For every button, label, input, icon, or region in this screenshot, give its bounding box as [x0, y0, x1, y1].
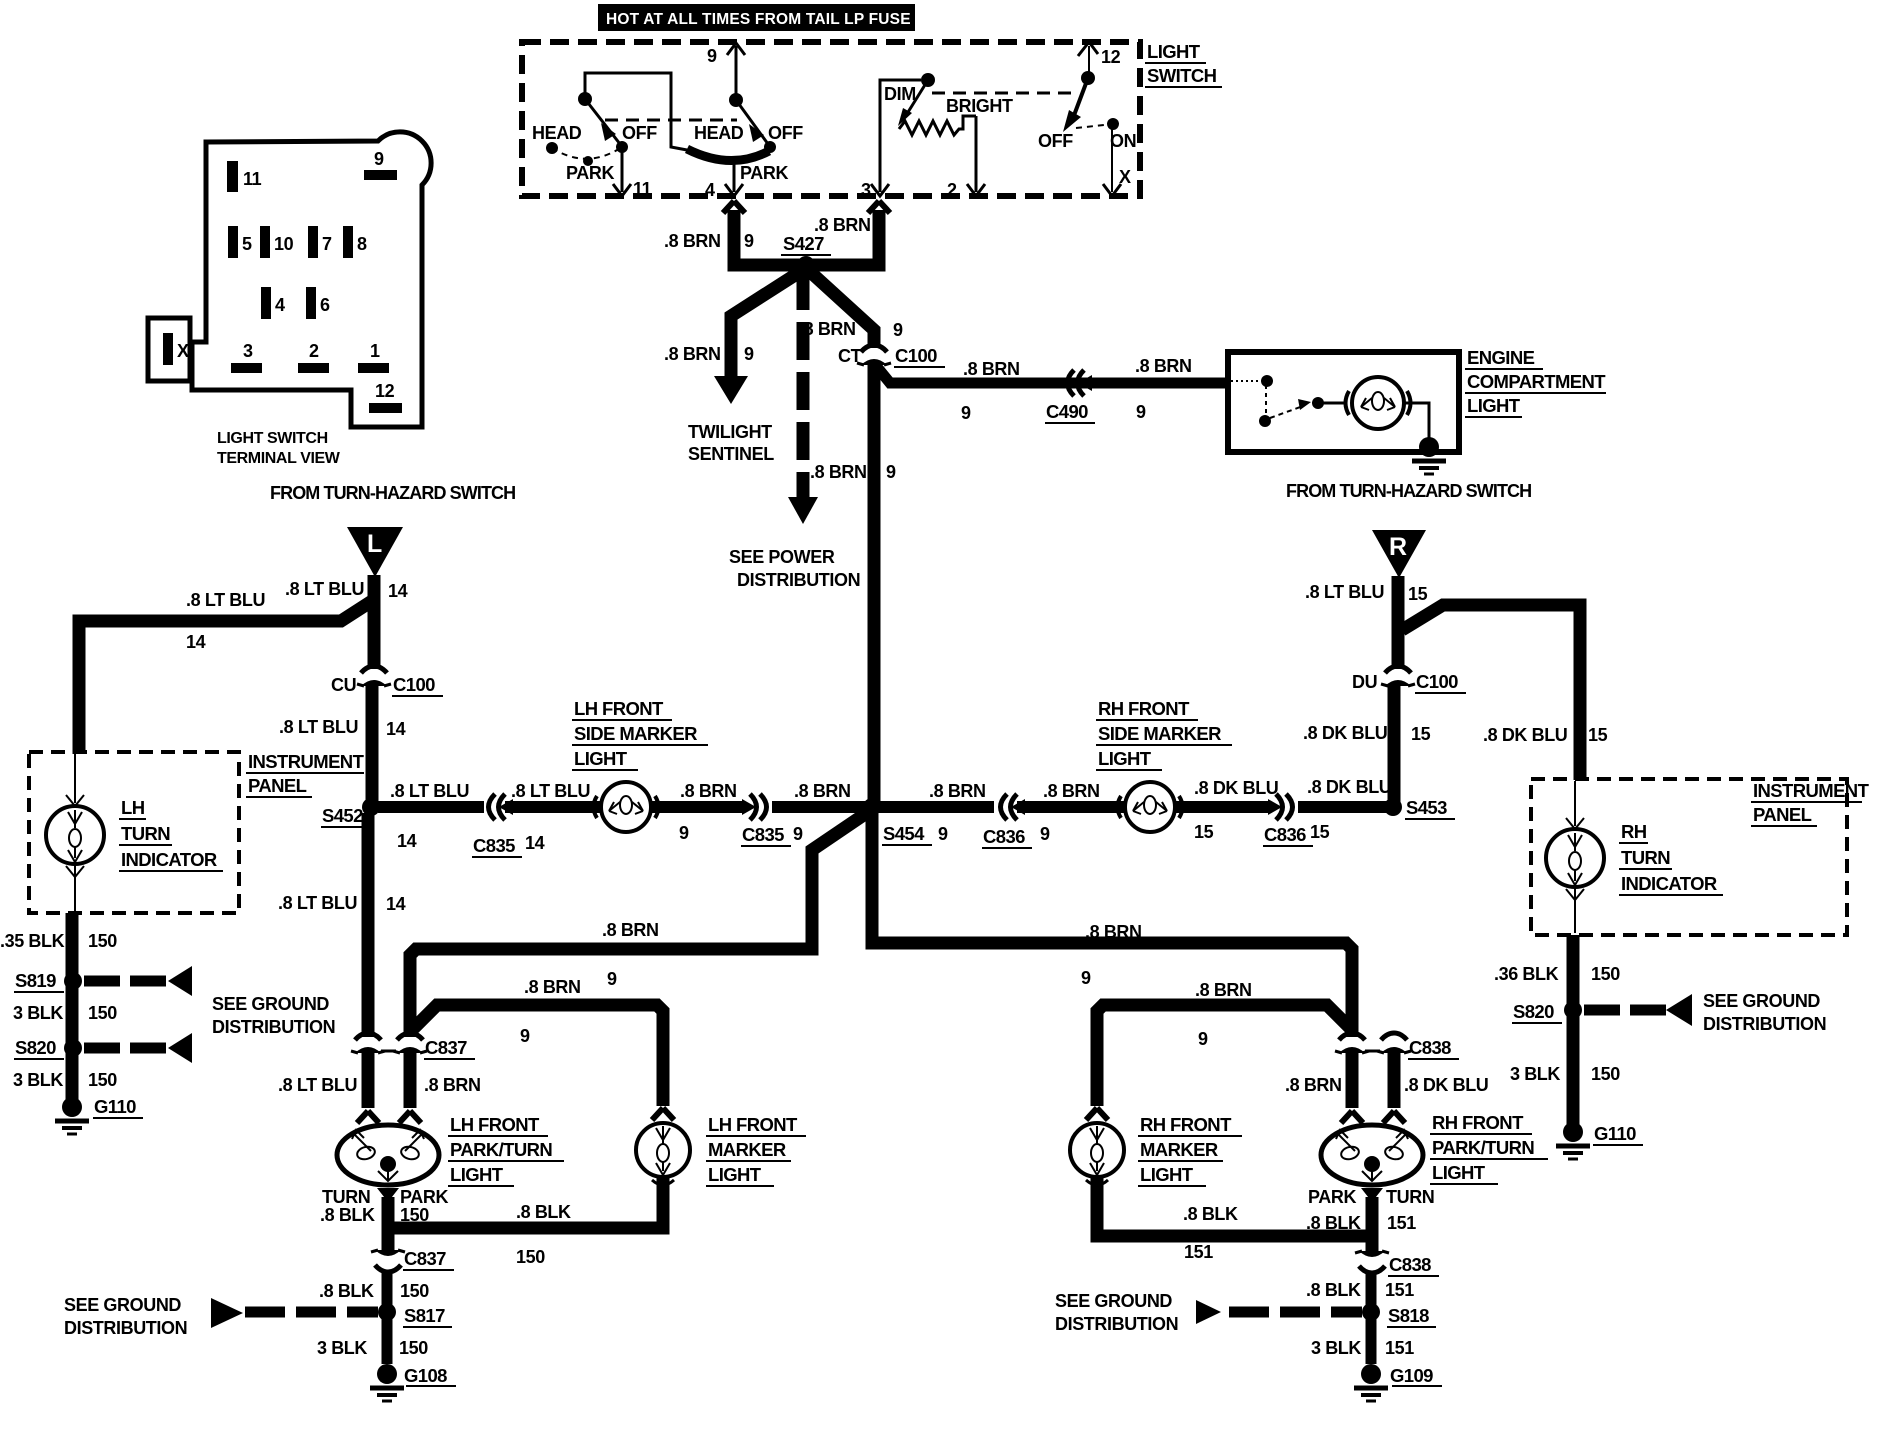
svg-text:C837: C837 — [425, 1037, 467, 1058]
svg-text:15: 15 — [1411, 724, 1431, 744]
label INSTRUMENT PANEL LH — [246, 751, 365, 797]
wire bulb to ground — [1404, 403, 1429, 440]
svg-text:S820: S820 — [15, 1037, 56, 1058]
svg-text:9: 9 — [744, 344, 754, 364]
svg-text:151: 151 — [1184, 1242, 1213, 1262]
pin 3 wire and riser — [861, 80, 921, 200]
svg-text:PANEL: PANEL — [248, 775, 307, 796]
label .8 BRN 9 (marker-C835b) — [679, 781, 737, 843]
svg-text:DIM: DIM — [884, 84, 916, 104]
svg-text:TURN: TURN — [121, 823, 170, 844]
label SEE GROUND DISTRIBUTION (RH bottom) — [1055, 1291, 1178, 1334]
rheostat zigzag — [899, 116, 976, 135]
label LH TURN INDICATOR — [119, 797, 223, 871]
label INSTRUMENT PANEL RH — [1751, 780, 1870, 826]
label SEE POWER DISTRIBUTION — [729, 547, 860, 590]
engine compartment light box — [1228, 352, 1459, 452]
dashed blade travel — [1076, 125, 1104, 128]
wire S427 to twilight sentinel arrow — [714, 268, 806, 404]
pin X — [163, 333, 189, 365]
wire pivot1 to head contact 2 — [585, 73, 687, 150]
on-off switch blade — [1063, 78, 1088, 132]
svg-text:9: 9 — [886, 462, 896, 482]
svg-text:SEE GROUND: SEE GROUND — [1055, 1291, 1172, 1311]
wire S452 to C835 — [378, 801, 484, 813]
svg-text:12: 12 — [1101, 47, 1121, 67]
pin 2 — [298, 341, 329, 373]
label 3 BLK 151 (S818) — [1311, 1338, 1414, 1358]
label .8 BRN 9 (pin4) — [664, 231, 754, 251]
label LH FRONT PARK/TURN LIGHT — [448, 1114, 564, 1186]
pin 4 wire — [705, 163, 743, 200]
svg-text:SEE GROUND: SEE GROUND — [1703, 991, 1820, 1011]
node DIM — [921, 73, 935, 87]
svg-text:PARK: PARK — [566, 163, 614, 183]
svg-text:RH FRONT: RH FRONT — [1140, 1114, 1232, 1135]
dashed link line B — [932, 92, 1077, 95]
svg-text:7: 7 — [322, 234, 332, 254]
wire branch to LH turn indicator — [79, 601, 372, 754]
svg-text:151: 151 — [1385, 1338, 1414, 1358]
svg-text:HOT AT ALL TIMES FROM TAIL LP: HOT AT ALL TIMES FROM TAIL LP FUSE — [606, 11, 911, 28]
wire marker to C835 b — [652, 801, 744, 813]
node OFF 1 — [616, 141, 628, 153]
svg-text:4: 4 — [705, 180, 715, 200]
RH front marker bulb — [1070, 1108, 1124, 1185]
wire branch to RH turn indicator — [1402, 605, 1580, 780]
svg-text:.8 BRN: .8 BRN — [794, 781, 851, 801]
label .8 BLK 151 (RH marker ground) — [1183, 1204, 1238, 1262]
wire S454 diagonal to LH outer brown run — [410, 812, 868, 1037]
wire LH indicator to G110 — [66, 913, 79, 1100]
wire C836 to RH side marker — [1017, 801, 1124, 813]
pin 1 — [358, 341, 389, 373]
svg-text:1: 1 — [370, 341, 380, 361]
svg-text:LH FRONT: LH FRONT — [450, 1114, 540, 1135]
svg-text:RH: RH — [1621, 821, 1647, 842]
svg-text:DISTRIBUTION: DISTRIBUTION — [1703, 1014, 1826, 1034]
svg-text:COMPARTMENT: COMPARTMENT — [1467, 371, 1606, 392]
RH front park/turn light housing — [1321, 1125, 1423, 1185]
svg-text:C100: C100 — [393, 674, 435, 695]
svg-text:.8 BRN: .8 BRN — [1135, 356, 1192, 376]
svg-text:S818: S818 — [1388, 1305, 1429, 1326]
svg-text:9: 9 — [793, 824, 803, 844]
svg-text:.8 BLK: .8 BLK — [516, 1202, 571, 1222]
wire pin4 drop to S427 — [723, 201, 806, 265]
dimmer wiper blade — [898, 80, 928, 126]
svg-text:INDICATOR: INDICATOR — [121, 849, 217, 870]
svg-text:PARK: PARK — [740, 163, 788, 183]
label LIGHT SWITCH — [1145, 41, 1222, 87]
wire LH inner brown run to marker — [412, 1005, 663, 1106]
svg-text:9: 9 — [893, 320, 903, 340]
label RH FRONT MARKER LIGHT — [1138, 1114, 1242, 1186]
svg-text:PARK/TURN: PARK/TURN — [1432, 1137, 1534, 1158]
connector C838 right half — [1365, 1033, 1459, 1059]
wire C837 left to LH park-turn TURN terminal — [357, 1051, 379, 1123]
svg-text:DISTRIBUTION: DISTRIBUTION — [212, 1017, 335, 1037]
svg-text:LIGHT: LIGHT — [1098, 748, 1152, 769]
connector C490 — [1045, 370, 1095, 423]
RH park/turn common node — [1362, 1156, 1382, 1181]
svg-text:2: 2 — [947, 180, 957, 200]
connector C100 CU — [331, 645, 443, 696]
svg-text:OFF: OFF — [1038, 131, 1073, 151]
svg-text:PARK/TURN: PARK/TURN — [450, 1139, 552, 1160]
svg-text:MARKER: MARKER — [1140, 1139, 1218, 1160]
svg-text:9: 9 — [961, 403, 971, 423]
svg-text:.8 BRN: .8 BRN — [963, 359, 1020, 379]
svg-text:C490: C490 — [1046, 401, 1088, 422]
connector C835 a — [472, 794, 545, 857]
wire R triangle down — [1392, 576, 1405, 650]
splice S427 — [781, 233, 831, 274]
connector C837 right half — [381, 1033, 475, 1059]
wire C838 left to RH park-turn PARK terminal — [1341, 1051, 1363, 1123]
engine compartment bulb — [1346, 377, 1411, 429]
svg-text:SENTINEL: SENTINEL — [688, 444, 774, 464]
label SEE GROUND DISTRIBUTION LH — [212, 994, 335, 1037]
pin 10 — [260, 226, 294, 258]
svg-text:.8 LT BLU: .8 LT BLU — [390, 781, 469, 801]
svg-text:150: 150 — [516, 1247, 545, 1267]
splice S453 — [1384, 797, 1455, 819]
connector C837 lower — [371, 1248, 454, 1272]
svg-text:LIGHT: LIGHT — [1467, 395, 1521, 416]
svg-text:BRIGHT: BRIGHT — [946, 96, 1013, 116]
svg-text:MARKER: MARKER — [708, 1139, 786, 1160]
svg-text:9: 9 — [520, 1026, 530, 1046]
pin 8 — [343, 226, 367, 258]
svg-text:X: X — [177, 341, 189, 361]
label PARK / TURN (RH) — [1308, 1187, 1434, 1207]
svg-text:C838: C838 — [1389, 1254, 1431, 1275]
LH front side marker bulb — [594, 782, 659, 832]
label SEE GROUND DISTRIBUTION (LH bottom) — [64, 1295, 187, 1338]
wire pin3 drop to S427 — [806, 201, 890, 265]
wire C837 lower to S817 — [382, 1271, 393, 1308]
node engine switch bottom — [1259, 415, 1271, 427]
wire C838 lower to S818 — [1366, 1272, 1377, 1306]
splice S817 — [378, 1303, 452, 1327]
engine switch blade dashed — [1270, 399, 1311, 418]
banner HOT AT ALL TIMES FROM TAIL LP FUSE — [598, 4, 915, 31]
LH front park/turn light housing — [337, 1125, 439, 1185]
dashed lead to S817 with arrow — [211, 1298, 378, 1328]
switch pivot node 1 — [578, 92, 592, 106]
svg-text:S819: S819 — [15, 970, 56, 991]
svg-text:.8 BRN: .8 BRN — [1043, 781, 1100, 801]
pin 12 — [369, 381, 402, 413]
dashed wire S427 to power distribution — [788, 272, 818, 524]
svg-text:C835: C835 — [742, 824, 784, 845]
svg-text:14: 14 — [386, 894, 406, 914]
ground engine lamp — [1412, 437, 1446, 474]
label .8 BRN 9 (LH outer run) — [602, 920, 659, 989]
svg-text:.8 BLK: .8 BLK — [319, 1281, 374, 1301]
connector C837 left half — [351, 1033, 385, 1053]
svg-text:.8 LT BLU: .8 LT BLU — [186, 590, 265, 610]
svg-text:TURN: TURN — [322, 1187, 370, 1207]
svg-text:9: 9 — [707, 46, 717, 66]
wire C837 right to LH park-turn PARK terminal — [399, 1051, 421, 1123]
label .8 LT BLU 14 (below L) — [285, 579, 408, 601]
pin 12 wire — [1078, 42, 1121, 78]
svg-text:SWITCH: SWITCH — [1147, 65, 1217, 86]
pin 11 — [227, 161, 262, 192]
label .8 BRN 9 (RH inner run) — [1195, 980, 1252, 1049]
label RH FRONT PARK/TURN LIGHT — [1430, 1112, 1548, 1184]
svg-text:2: 2 — [309, 341, 319, 361]
svg-text:.8 BRN: .8 BRN — [929, 781, 986, 801]
svg-text:C100: C100 — [895, 345, 937, 366]
ground G110 RH — [1556, 1122, 1643, 1159]
svg-text:C837: C837 — [404, 1248, 446, 1269]
svg-text:S453: S453 — [1406, 797, 1447, 818]
RH front side marker bulb — [1118, 782, 1183, 832]
svg-text:14: 14 — [388, 581, 408, 601]
svg-text:.8 LT BLU: .8 LT BLU — [279, 717, 358, 737]
svg-text:9: 9 — [1136, 402, 1146, 422]
svg-text:15: 15 — [1408, 584, 1428, 604]
svg-text:LIGHT: LIGHT — [1432, 1162, 1486, 1183]
svg-text:3 BLK: 3 BLK — [1311, 1338, 1361, 1358]
wire S818 to G109 — [1366, 1312, 1377, 1364]
svg-text:.8 BRN: .8 BRN — [1285, 1075, 1342, 1095]
svg-text:DISTRIBUTION: DISTRIBUTION — [1055, 1314, 1178, 1334]
svg-text:.8 BLK: .8 BLK — [1183, 1204, 1238, 1224]
svg-text:.8 BLK: .8 BLK — [1306, 1280, 1361, 1300]
label RH TURN INDICATOR — [1619, 821, 1723, 895]
label .8 BLK 151 (RH light ground) — [1306, 1213, 1416, 1233]
switch pivot node 12 — [1081, 71, 1095, 85]
svg-text:.8 BRN: .8 BRN — [602, 920, 659, 940]
svg-text:3 BLK: 3 BLK — [13, 1003, 63, 1023]
label .8 BRN 9 (RH outer run) — [1081, 922, 1142, 988]
svg-text:10: 10 — [274, 234, 294, 254]
svg-text:.8 BRN: .8 BRN — [664, 344, 721, 364]
splice S818 — [1362, 1303, 1436, 1327]
svg-text:.8 LT BLU: .8 LT BLU — [278, 1075, 357, 1095]
svg-text:G108: G108 — [404, 1365, 447, 1386]
svg-text:C100: C100 — [1416, 671, 1458, 692]
LH park/turn bulb PARK element — [400, 1130, 424, 1161]
label .8 DK BLU 15 (above S453) — [1303, 723, 1431, 744]
svg-text:150: 150 — [399, 1338, 428, 1358]
LH park/turn bulb TURN element — [352, 1130, 376, 1161]
svg-text:15: 15 — [1194, 822, 1214, 842]
svg-text:SEE GROUND: SEE GROUND — [212, 994, 329, 1014]
svg-text:C836: C836 — [983, 826, 1025, 847]
svg-text:151: 151 — [1385, 1280, 1414, 1300]
svg-text:C836: C836 — [1264, 824, 1306, 845]
svg-text:150: 150 — [88, 931, 117, 951]
svg-text:.8 BRN: .8 BRN — [1195, 980, 1252, 1000]
wire branch to engine compartment light — [877, 367, 1229, 383]
terminal view X cavity box — [148, 318, 190, 381]
svg-text:11: 11 — [243, 169, 262, 189]
splice S454 — [863, 798, 948, 845]
ground G109 — [1354, 1364, 1442, 1401]
svg-text:TURN: TURN — [1386, 1187, 1434, 1207]
svg-text:9: 9 — [1198, 1029, 1208, 1049]
light switch dashed box — [522, 42, 1140, 196]
label .8 BRN 9 (twilight) — [664, 344, 754, 364]
node ON — [1107, 118, 1119, 130]
label RH FRONT SIDE MARKER LIGHT — [1096, 698, 1232, 770]
connector R triangle — [1372, 530, 1426, 578]
wire RH inner brown run to marker — [1097, 1005, 1352, 1106]
svg-text:.8 BRN: .8 BRN — [524, 977, 581, 997]
svg-text:.8 BRN: .8 BRN — [424, 1075, 481, 1095]
svg-text:OFF: OFF — [768, 123, 803, 143]
svg-text:150: 150 — [1591, 1064, 1620, 1084]
svg-text:CU: CU — [331, 675, 356, 695]
node engine lamp contact — [1312, 397, 1324, 409]
dashed travel arc 1 — [552, 147, 622, 159]
svg-text:11: 11 — [633, 179, 652, 199]
svg-text:SEE POWER: SEE POWER — [729, 547, 835, 567]
ground G108 — [370, 1364, 456, 1401]
wire S454 down to RH outer brown run — [872, 812, 1352, 1037]
label .8 DK BLU 15 (marker-C836b) — [1194, 778, 1278, 842]
svg-text:9: 9 — [876, 215, 886, 235]
node PARK 1 — [583, 156, 593, 166]
svg-text:DISTRIBUTION: DISTRIBUTION — [737, 570, 860, 590]
label LH FRONT SIDE MARKER LIGHT — [572, 698, 708, 770]
svg-text:.8 BRN: .8 BRN — [799, 319, 856, 339]
svg-text:R: R — [1389, 533, 1407, 561]
svg-text:150: 150 — [88, 1003, 117, 1023]
label .36 BLK 150 — [1494, 964, 1620, 984]
svg-text:.8 BLK: .8 BLK — [320, 1205, 375, 1225]
svg-text:.8 BRN: .8 BRN — [664, 231, 721, 251]
dashed lead S820 to ground distribution — [84, 1033, 192, 1063]
svg-text:9: 9 — [374, 149, 384, 169]
svg-text:G109: G109 — [1390, 1365, 1433, 1386]
svg-text:L: L — [367, 530, 382, 558]
switch pivot node pin9 — [729, 93, 743, 107]
svg-text:.8 LT BLU: .8 LT BLU — [1305, 582, 1384, 602]
svg-text:15: 15 — [1310, 822, 1330, 842]
svg-text:S817: S817 — [404, 1305, 445, 1326]
svg-text:.8 BRN: .8 BRN — [680, 781, 737, 801]
svg-text:TWILIGHT: TWILIGHT — [688, 422, 772, 442]
label .8 LT BLU 14 (branch) — [186, 590, 265, 652]
ground G110 LH — [55, 1096, 143, 1134]
RH park/turn bulb TURN element — [1384, 1130, 1408, 1161]
node engine switch top — [1261, 375, 1273, 387]
svg-text:PARK: PARK — [400, 1187, 448, 1207]
wire C100 DU to S453 — [1388, 684, 1401, 807]
svg-text:150: 150 — [400, 1281, 429, 1301]
svg-text:.8 BRN: .8 BRN — [810, 462, 867, 482]
label TWILIGHT SENTINEL — [688, 422, 774, 464]
svg-text:LIGHT: LIGHT — [1147, 41, 1201, 62]
label .8 BLK 150 (LH light ground) — [320, 1205, 429, 1225]
connector C836 a — [982, 794, 1050, 848]
pin 2 wire — [947, 116, 985, 200]
svg-text:S454: S454 — [883, 823, 925, 844]
label SEE GROUND DISTRIBUTION RH top — [1703, 991, 1826, 1034]
svg-text:INSTRUMENT: INSTRUMENT — [1753, 780, 1870, 801]
svg-text:3 BLK: 3 BLK — [1510, 1064, 1560, 1084]
label .8 BLK 150 (to S817) — [319, 1281, 429, 1301]
pin 7 — [308, 226, 332, 258]
label ENGINE COMPARTMENT LIGHT — [1465, 347, 1606, 417]
connector C838 left half — [1335, 1033, 1369, 1053]
LH turn indicator bulb — [46, 754, 104, 911]
svg-text:TERMINAL VIEW: TERMINAL VIEW — [217, 450, 341, 467]
svg-text:C835: C835 — [473, 835, 515, 856]
svg-text:FROM TURN-HAZARD SWITCH: FROM TURN-HAZARD SWITCH — [270, 483, 515, 503]
svg-text:9: 9 — [1081, 968, 1091, 988]
svg-text:.8 DK BLU: .8 DK BLU — [1307, 777, 1391, 797]
svg-text:PANEL: PANEL — [1753, 804, 1812, 825]
node OFF 2 — [764, 141, 776, 153]
svg-text:3 BLK: 3 BLK — [13, 1070, 63, 1090]
svg-text:LH FRONT: LH FRONT — [574, 698, 664, 719]
dotted feed inside engine box — [1231, 380, 1261, 382]
svg-text:DISTRIBUTION: DISTRIBUTION — [64, 1318, 187, 1338]
wire RH marker light ground run — [1097, 1178, 1366, 1236]
connector C100 DU — [1352, 645, 1466, 693]
wire S427 to C100 CT — [806, 268, 874, 348]
svg-text:15: 15 — [1588, 725, 1608, 745]
wire S817 to G108 — [382, 1312, 393, 1364]
svg-text:151: 151 — [1387, 1213, 1416, 1233]
svg-text:G110: G110 — [94, 1096, 136, 1117]
wire RH park/turn ground down to C838 — [1366, 1197, 1379, 1253]
wire S452 down to C837 — [362, 813, 375, 1037]
svg-text:14: 14 — [386, 719, 406, 739]
headlamp switch blade 1 — [585, 99, 620, 144]
connector C836 b — [1263, 794, 1330, 846]
label .8 BRN 9 (left of C490) — [961, 359, 1020, 423]
instrument panel dashed box LH — [29, 752, 239, 913]
svg-text:LIGHT SWITCH: LIGHT SWITCH — [217, 430, 328, 447]
wiper arc 2 (park position heavy contact) — [687, 149, 769, 161]
svg-text:5: 5 — [242, 234, 252, 254]
svg-text:S427: S427 — [783, 233, 824, 254]
svg-text:X: X — [1119, 167, 1131, 187]
dashed lead S819 to ground distribution — [84, 966, 192, 996]
wire C838 right to RH park-turn TURN terminal — [1383, 1051, 1405, 1123]
svg-text:14: 14 — [525, 833, 545, 853]
svg-text:PARK: PARK — [1308, 1187, 1356, 1207]
svg-text:9: 9 — [607, 969, 617, 989]
splice S452 — [321, 798, 380, 827]
label .8 BRN 9 (dashed lower / main vertical) — [810, 462, 896, 482]
svg-text:150: 150 — [1591, 964, 1620, 984]
label 3 BLK 150 (S820 RH) — [1510, 1064, 1620, 1084]
wire contact to bulb — [1318, 402, 1345, 405]
svg-text:HEAD: HEAD — [532, 123, 582, 143]
label .8 LT BLU 14 (above S452) — [279, 717, 406, 739]
wire S454 to C836 a — [878, 801, 994, 813]
wire C100 CU to S452 — [366, 684, 379, 807]
svg-text:.8 DK BLU: .8 DK BLU — [1483, 725, 1567, 745]
svg-text:RH FRONT: RH FRONT — [1098, 698, 1190, 719]
connector C100 CT — [838, 345, 945, 367]
svg-text:LIGHT: LIGHT — [1140, 1164, 1194, 1185]
svg-text:LIGHT: LIGHT — [574, 748, 628, 769]
svg-text:LIGHT: LIGHT — [450, 1164, 504, 1185]
svg-text:.8 BRN: .8 BRN — [814, 215, 871, 235]
svg-text:TURN: TURN — [1621, 847, 1670, 868]
pin 6 — [306, 287, 330, 319]
